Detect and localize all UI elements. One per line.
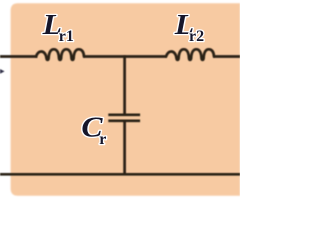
svg-text:r: r bbox=[99, 131, 106, 148]
wire: top rail middle segment (L_r1 to L_r2, through node A) bbox=[83, 55, 167, 58]
wire: vertical branch from capacitor bottom plate down to bottom rail bbox=[123, 122, 126, 175]
svg-text:r2: r2 bbox=[189, 28, 204, 45]
label L_r1 bbox=[42, 9, 74, 45]
capacitor C_r bbox=[108, 115, 140, 121]
wire: top rail right segment (L_r2 to output) bbox=[213, 55, 240, 58]
wire: top rail left segment (input to L_r1) bbox=[0, 55, 38, 58]
label L_r2 bbox=[174, 9, 204, 45]
svg-text:r1: r1 bbox=[59, 28, 74, 45]
inductor L_r1 bbox=[36, 49, 84, 60]
wire: bottom rail (ground return) bbox=[0, 173, 240, 176]
wire: vertical branch from node A down to capacitor top plate bbox=[123, 55, 126, 114]
inductor L_r2 bbox=[166, 49, 214, 60]
arrowhead (input current marker, clipped at left edge) bbox=[0, 69, 5, 74]
label C_r bbox=[81, 112, 106, 148]
